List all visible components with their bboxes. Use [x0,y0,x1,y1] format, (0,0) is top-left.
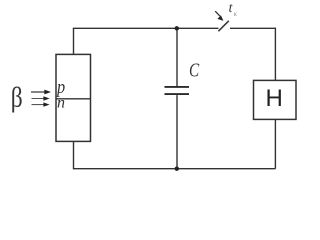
switch blade [218,21,228,31]
p-n junction divider line [56,98,91,100]
switch closing arrow [215,11,223,21]
wire: right vertical down to H box [274,28,276,81]
junction node top [175,26,179,30]
svg-text:β: β [11,81,23,112]
wire: top-left vertical from p-n box to top rail [73,28,75,54]
neon lamp box H [254,80,297,119]
junction node bottom [175,167,179,171]
capacitor C top plate [165,86,190,88]
wire: top rail right section from switch to right corner [230,27,275,29]
p-n junction detector box [56,54,91,141]
beta ray arrow 2 [32,96,50,100]
svg-text:H: H [266,85,283,112]
capacitor C top lead [176,28,178,86]
wire: bottom rail [74,168,276,170]
beta ray arrow 3 [32,102,50,106]
wire: H box bottom lead [274,119,276,168]
capacitor C bottom lead [176,95,178,169]
wire: bottom-left vertical from p-n box to bottom rail [73,141,75,169]
wire: top rail left section to switch left contact [73,27,219,29]
capacitor C bottom plate [165,93,190,95]
svg-text:C: C [189,58,199,81]
beta ray arrow 1 [31,90,51,95]
svg-text:n: n [57,95,65,112]
